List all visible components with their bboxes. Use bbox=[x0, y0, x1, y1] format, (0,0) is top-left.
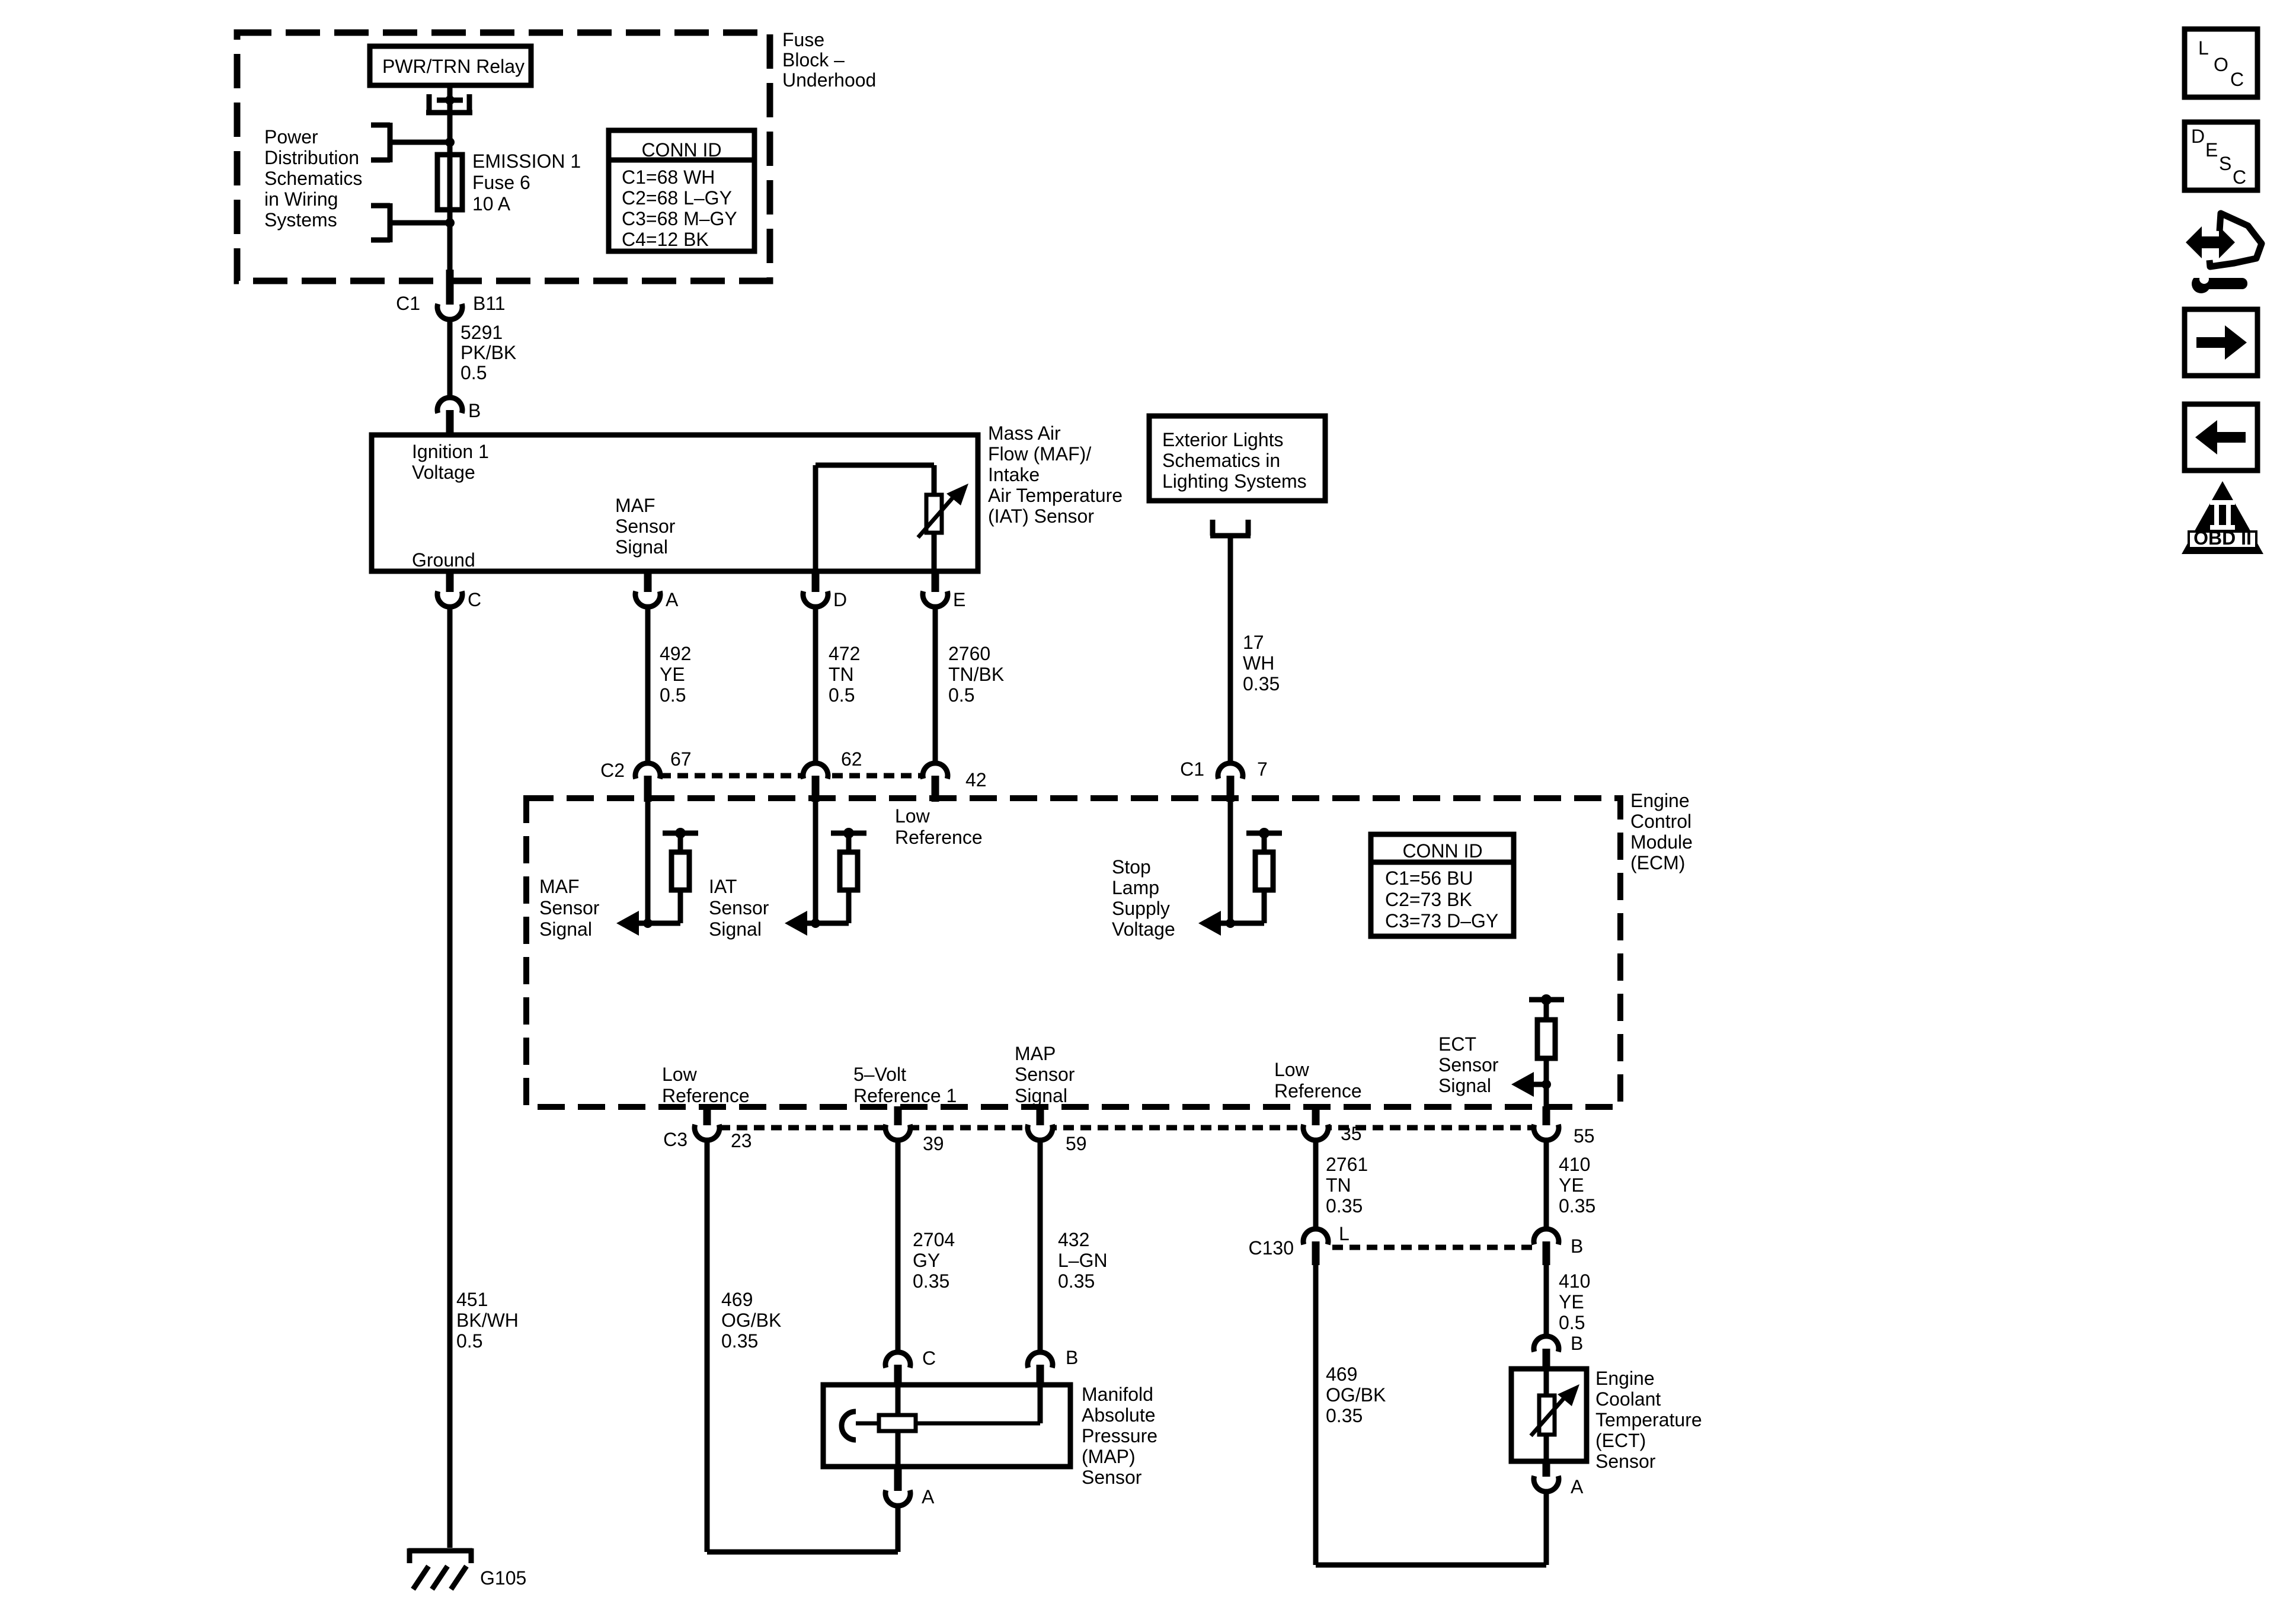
svg-text:G105: G105 bbox=[480, 1567, 526, 1589]
svg-text:C2=73 BK: C2=73 BK bbox=[1385, 889, 1472, 910]
svg-text:62: 62 bbox=[841, 748, 862, 770]
svg-text:C1=56 BU: C1=56 BU bbox=[1385, 868, 1473, 889]
svg-text:Engine: Engine bbox=[1630, 790, 1690, 811]
svg-text:Fuse 6: Fuse 6 bbox=[472, 172, 530, 193]
svg-text:2760: 2760 bbox=[948, 643, 990, 664]
fuse F6 EMISSION 1 bbox=[437, 155, 462, 210]
svg-text:472: 472 bbox=[829, 643, 860, 664]
svg-text:C1=68 WH: C1=68 WH bbox=[622, 167, 715, 188]
svg-text:2761: 2761 bbox=[1326, 1154, 1368, 1175]
icon: DESC box bbox=[2185, 122, 2257, 190]
svg-text:7: 7 bbox=[1257, 758, 1268, 780]
svg-text:MAF: MAF bbox=[615, 495, 655, 516]
connector pin 35 bbox=[1312, 1106, 1320, 1125]
wire 2704 GY 0.35 bbox=[896, 1140, 901, 1353]
svg-text:Fuse: Fuse bbox=[782, 29, 824, 50]
wire 492 YE 0.5 bbox=[645, 607, 651, 764]
svg-text:Voltage: Voltage bbox=[1112, 918, 1175, 940]
wire 2760 TN/BK 0.5 bbox=[933, 607, 938, 764]
wire: relay to fuse bbox=[447, 85, 453, 155]
ECM IAT sensor signal input bbox=[785, 802, 866, 936]
svg-text:Exterior Lights: Exterior Lights bbox=[1162, 429, 1284, 450]
svg-text:C3: C3 bbox=[663, 1129, 687, 1150]
svg-text:(IAT) Sensor: (IAT) Sensor bbox=[988, 505, 1094, 527]
sensor pin C bbox=[446, 571, 454, 592]
svg-text:D: D bbox=[2191, 126, 2205, 147]
svg-text:Engine: Engine bbox=[1595, 1368, 1655, 1389]
svg-text:(ECM): (ECM) bbox=[1630, 852, 1685, 873]
MAP sensor transducer symbol bbox=[842, 1385, 1040, 1467]
svg-text:TN: TN bbox=[829, 664, 854, 685]
svg-text:Low: Low bbox=[895, 805, 930, 827]
svg-text:Absolute: Absolute bbox=[1082, 1404, 1156, 1426]
svg-text:Sensor: Sensor bbox=[1082, 1467, 1142, 1488]
connector pin 62 bbox=[803, 763, 828, 779]
wire 472 TN 0.5 bbox=[813, 607, 818, 764]
connector C2 pin 67 bbox=[635, 763, 660, 779]
svg-text:5291: 5291 bbox=[461, 322, 503, 343]
svg-text:MAF: MAF bbox=[539, 876, 580, 897]
wire 469 OG/BK 0.35 (low reference to MAP) bbox=[705, 1140, 710, 1552]
svg-text:Sensor: Sensor bbox=[709, 897, 769, 918]
svg-text:Reference: Reference bbox=[895, 827, 983, 848]
wire 410 YE 0.5 bbox=[1544, 1265, 1549, 1337]
svg-text:67: 67 bbox=[670, 748, 692, 770]
svg-text:39: 39 bbox=[923, 1133, 944, 1154]
svg-text:42: 42 bbox=[965, 769, 987, 790]
svg-text:5–Volt: 5–Volt bbox=[853, 1064, 906, 1085]
sensor pin E bbox=[932, 571, 939, 592]
icon: LOC box bbox=[2185, 29, 2257, 97]
svg-text:L: L bbox=[1339, 1223, 1350, 1244]
ECM stop lamp supply voltage branch bbox=[1198, 802, 1282, 936]
svg-text:0.5: 0.5 bbox=[461, 362, 487, 383]
ECT thermistor symbol bbox=[1531, 1369, 1579, 1461]
icon: forward arrow box bbox=[2185, 309, 2257, 376]
icon: back arrow box bbox=[2185, 404, 2257, 470]
svg-text:(MAP): (MAP) bbox=[1082, 1446, 1136, 1467]
svg-text:Air Temperature: Air Temperature bbox=[988, 485, 1123, 506]
svg-text:0.5: 0.5 bbox=[948, 684, 974, 706]
connector C130 pin L bbox=[1303, 1229, 1328, 1244]
svg-text:Schematics: Schematics bbox=[264, 168, 362, 189]
svg-text:17: 17 bbox=[1243, 632, 1264, 653]
svg-text:Signal: Signal bbox=[615, 536, 668, 558]
svg-text:YE: YE bbox=[1559, 1174, 1584, 1196]
svg-text:C: C bbox=[922, 1347, 936, 1369]
svg-text:C3=73 D–GY: C3=73 D–GY bbox=[1385, 910, 1498, 932]
svg-text:Sensor: Sensor bbox=[539, 897, 600, 918]
ECM ECT sensor signal branch bbox=[1511, 994, 1564, 1106]
svg-text:Sensor: Sensor bbox=[615, 516, 676, 537]
wire: fuse block output stub bbox=[446, 270, 454, 305]
icon: OBD II triangle bbox=[2182, 481, 2263, 554]
ECM MAF sensor signal input bbox=[616, 802, 698, 936]
relay coil terminal bracket bbox=[426, 94, 472, 114]
svg-text:Supply: Supply bbox=[1112, 898, 1170, 919]
connector C130 pin B bbox=[1534, 1229, 1559, 1244]
net: ECM connector C3 dashed line bbox=[720, 1125, 1534, 1131]
svg-text:in Wiring: in Wiring bbox=[264, 188, 338, 210]
connector C1 terminal B11 bbox=[437, 304, 462, 319]
node A: junction to power distribution (upper) bbox=[445, 137, 455, 147]
CONN ID table (ECM) bbox=[1371, 834, 1514, 936]
svg-text:0.35: 0.35 bbox=[1058, 1270, 1095, 1292]
svg-text:451: 451 bbox=[456, 1289, 488, 1310]
svg-text:S: S bbox=[2219, 153, 2231, 174]
svg-text:Control: Control bbox=[1630, 811, 1691, 832]
svg-text:Signal: Signal bbox=[539, 918, 592, 940]
svg-text:YE: YE bbox=[1559, 1291, 1584, 1313]
svg-text:Voltage: Voltage bbox=[412, 462, 475, 483]
ground G105 bbox=[408, 1548, 472, 1589]
svg-text:E: E bbox=[953, 589, 965, 610]
svg-text:B: B bbox=[1571, 1235, 1583, 1257]
svg-text:432: 432 bbox=[1058, 1229, 1089, 1250]
svg-text:469: 469 bbox=[721, 1289, 753, 1310]
wire 469 OG/BK 0.35 (ECT low reference) bbox=[1313, 1265, 1319, 1565]
svg-text:55: 55 bbox=[1574, 1125, 1595, 1147]
svg-text:YE: YE bbox=[660, 664, 685, 685]
svg-text:OBD II: OBD II bbox=[2193, 527, 2252, 549]
svg-text:Mass Air: Mass Air bbox=[988, 422, 1061, 444]
svg-text:Flow (MAF)/: Flow (MAF)/ bbox=[988, 443, 1091, 465]
MAF/IAT sensor box bbox=[372, 435, 978, 571]
svg-text:E: E bbox=[2205, 139, 2218, 161]
svg-text:Block –: Block – bbox=[782, 49, 845, 71]
svg-text:Signal: Signal bbox=[1015, 1085, 1067, 1106]
svg-text:469: 469 bbox=[1326, 1363, 1357, 1385]
svg-text:A: A bbox=[666, 589, 679, 610]
svg-text:OG/BK: OG/BK bbox=[721, 1310, 781, 1331]
connector C3 pin 23 bbox=[703, 1106, 711, 1125]
svg-text:C2: C2 bbox=[600, 760, 625, 781]
wire: ECT pin A to low reference bbox=[1544, 1491, 1549, 1565]
svg-text:0.5: 0.5 bbox=[660, 684, 686, 706]
Engine Control Module dashed box bbox=[526, 798, 1620, 1107]
svg-text:Lamp: Lamp bbox=[1112, 877, 1159, 898]
svg-text:Lighting Systems: Lighting Systems bbox=[1162, 470, 1307, 492]
svg-text:TN: TN bbox=[1326, 1174, 1351, 1196]
connector pin B (ECT sensor) bbox=[1534, 1336, 1559, 1352]
svg-text:D: D bbox=[833, 589, 847, 610]
svg-text:Low: Low bbox=[1274, 1059, 1310, 1080]
svg-text:Ground: Ground bbox=[412, 549, 475, 571]
svg-text:C1: C1 bbox=[1180, 758, 1204, 780]
svg-text:A: A bbox=[922, 1486, 935, 1507]
connector pin C (MAP sensor) bbox=[885, 1352, 910, 1368]
wire 2761 TN 0.35 bbox=[1313, 1140, 1319, 1230]
sensor pin A bbox=[644, 571, 652, 592]
svg-text:Systems: Systems bbox=[264, 209, 337, 231]
svg-text:0.35: 0.35 bbox=[1326, 1405, 1363, 1426]
svg-text:Coolant: Coolant bbox=[1595, 1388, 1661, 1410]
net: ECM connector C2 dashed line bbox=[660, 773, 923, 779]
connector pin 55 bbox=[1543, 1106, 1550, 1125]
svg-text:C130: C130 bbox=[1249, 1237, 1294, 1259]
svg-text:CONN ID: CONN ID bbox=[1402, 840, 1482, 862]
svg-text:Reference: Reference bbox=[662, 1085, 750, 1106]
svg-text:0.35: 0.35 bbox=[1243, 673, 1280, 694]
svg-text:B11: B11 bbox=[473, 293, 506, 314]
svg-text:C: C bbox=[468, 589, 481, 610]
svg-text:WH: WH bbox=[1243, 652, 1274, 674]
svg-text:10 A: 10 A bbox=[472, 193, 511, 215]
relay PWR/TRN Relay box bbox=[370, 46, 531, 85]
node B: junction to power distribution (lower) bbox=[447, 210, 453, 270]
svg-text:Sensor: Sensor bbox=[1438, 1054, 1499, 1076]
svg-text:C2=68 L–GY: C2=68 L–GY bbox=[622, 187, 732, 209]
svg-text:Reference: Reference bbox=[1274, 1080, 1362, 1102]
svg-text:O: O bbox=[2214, 54, 2228, 75]
svg-text:Intake: Intake bbox=[988, 464, 1040, 485]
svg-text:Sensor: Sensor bbox=[1595, 1451, 1656, 1472]
svg-text:Pressure: Pressure bbox=[1082, 1425, 1157, 1446]
svg-text:0.35: 0.35 bbox=[1559, 1195, 1595, 1217]
svg-text:C: C bbox=[2230, 69, 2244, 90]
fuse block underhood dashed box bbox=[237, 33, 770, 281]
svg-text:B: B bbox=[468, 400, 481, 421]
connector B (MAF/IAT sensor) bbox=[437, 398, 462, 413]
svg-text:C4=12 BK: C4=12 BK bbox=[622, 229, 709, 250]
svg-text:35: 35 bbox=[1341, 1123, 1362, 1144]
bracket below exterior lights box bbox=[1210, 520, 1251, 536]
svg-text:MAP: MAP bbox=[1015, 1043, 1056, 1064]
svg-text:EMISSION 1: EMISSION 1 bbox=[472, 151, 581, 172]
svg-text:0.5: 0.5 bbox=[829, 684, 855, 706]
svg-text:GY: GY bbox=[913, 1250, 940, 1271]
svg-text:0.5: 0.5 bbox=[456, 1330, 482, 1352]
svg-text:410: 410 bbox=[1559, 1154, 1590, 1175]
svg-text:IAT: IAT bbox=[709, 876, 737, 897]
svg-text:BK/WH: BK/WH bbox=[456, 1310, 519, 1331]
CONN ID table (fuse block) bbox=[609, 130, 754, 251]
svg-text:492: 492 bbox=[660, 643, 691, 664]
svg-text:OG/BK: OG/BK bbox=[1326, 1384, 1386, 1406]
wire 5291 PK/BK 0.5 bbox=[447, 319, 453, 398]
svg-text:0.35: 0.35 bbox=[913, 1270, 949, 1292]
svg-text:0.35: 0.35 bbox=[1326, 1195, 1363, 1217]
wire 410 YE 0.35 bbox=[1544, 1140, 1549, 1230]
svg-text:Sensor: Sensor bbox=[1015, 1064, 1075, 1085]
svg-text:2704: 2704 bbox=[913, 1229, 955, 1250]
svg-text:0.5: 0.5 bbox=[1559, 1312, 1585, 1333]
IAT thermistor inside sensor bbox=[816, 465, 968, 571]
svg-text:Schematics in: Schematics in bbox=[1162, 450, 1280, 471]
svg-text:Ignition 1: Ignition 1 bbox=[412, 441, 489, 462]
ECT sensor box bbox=[1511, 1369, 1587, 1461]
bracket: power distribution tap (upper) bbox=[371, 123, 390, 162]
svg-text:L–GN: L–GN bbox=[1058, 1250, 1108, 1271]
svg-text:C: C bbox=[2233, 167, 2246, 188]
net: connector C130 dashed line bbox=[1332, 1245, 1533, 1250]
svg-text:CONN ID: CONN ID bbox=[641, 139, 721, 161]
connector pin A (ECT sensor) bbox=[1543, 1461, 1550, 1477]
svg-text:PK/BK: PK/BK bbox=[461, 342, 516, 363]
svg-text:Stop: Stop bbox=[1112, 856, 1151, 878]
svg-text:(ECT): (ECT) bbox=[1595, 1430, 1646, 1451]
svg-text:ECT: ECT bbox=[1438, 1033, 1476, 1055]
svg-text:PWR/TRN Relay: PWR/TRN Relay bbox=[382, 56, 525, 77]
svg-text:B: B bbox=[1571, 1333, 1583, 1354]
svg-text:Low: Low bbox=[662, 1064, 698, 1085]
svg-text:Manifold: Manifold bbox=[1082, 1384, 1153, 1405]
connector pin A (MAP sensor) bbox=[894, 1467, 902, 1491]
bracket: power distribution tap (lower) bbox=[371, 203, 390, 242]
svg-text:Reference 1: Reference 1 bbox=[853, 1085, 957, 1106]
Exterior Lights Schematics box bbox=[1149, 416, 1325, 501]
svg-text:Power: Power bbox=[264, 126, 318, 148]
node: relay output junction dot bbox=[445, 95, 455, 105]
svg-text:Module: Module bbox=[1630, 831, 1693, 853]
svg-text:Distribution: Distribution bbox=[264, 147, 359, 168]
wire 432 L-GN 0.35 bbox=[1038, 1140, 1043, 1353]
svg-text:59: 59 bbox=[1066, 1133, 1087, 1154]
connector pin B (MAP sensor) bbox=[1028, 1352, 1053, 1368]
connector C1 pin 7 bbox=[1218, 763, 1243, 779]
svg-text:Signal: Signal bbox=[709, 918, 762, 940]
svg-text:Temperature: Temperature bbox=[1595, 1409, 1702, 1430]
svg-text:Signal: Signal bbox=[1438, 1075, 1491, 1096]
MAP sensor box bbox=[823, 1385, 1070, 1467]
svg-text:B: B bbox=[1066, 1347, 1078, 1368]
icon: diagnostic wrench symbol bbox=[2186, 213, 2262, 293]
svg-text:L: L bbox=[2198, 37, 2209, 59]
svg-text:A: A bbox=[1571, 1476, 1584, 1497]
svg-text:Underhood: Underhood bbox=[782, 69, 876, 91]
wire 451 BK/WH 0.5 (ground wire) bbox=[447, 607, 453, 1548]
wire 17 WH 0.35 bbox=[1228, 538, 1233, 764]
wire: MAP pin A to low reference bbox=[896, 1506, 901, 1552]
connector pin 42 bbox=[923, 763, 948, 779]
svg-text:C1: C1 bbox=[396, 293, 420, 314]
connector pin 59 bbox=[1037, 1106, 1044, 1125]
svg-text:C3=68 M–GY: C3=68 M–GY bbox=[622, 208, 737, 229]
svg-text:410: 410 bbox=[1559, 1270, 1590, 1292]
svg-text:TN/BK: TN/BK bbox=[948, 664, 1004, 685]
sensor pin D bbox=[812, 571, 820, 592]
connector pin 39 bbox=[894, 1106, 902, 1125]
svg-text:23: 23 bbox=[731, 1130, 752, 1151]
svg-text:0.35: 0.35 bbox=[721, 1330, 758, 1352]
